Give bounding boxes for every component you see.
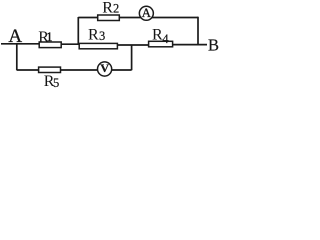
svg-text:1: 1 [46,30,52,44]
svg-text:A: A [8,26,22,47]
svg-text:R: R [152,26,163,43]
svg-text:R: R [88,26,99,43]
svg-text:V: V [100,61,109,75]
svg-text:5: 5 [53,76,59,90]
svg-text:A: A [142,5,152,20]
svg-text:4: 4 [162,32,169,46]
svg-text:2: 2 [113,2,119,16]
svg-text:B: B [208,36,219,55]
svg-text:R: R [102,0,113,16]
svg-text:3: 3 [99,29,105,43]
